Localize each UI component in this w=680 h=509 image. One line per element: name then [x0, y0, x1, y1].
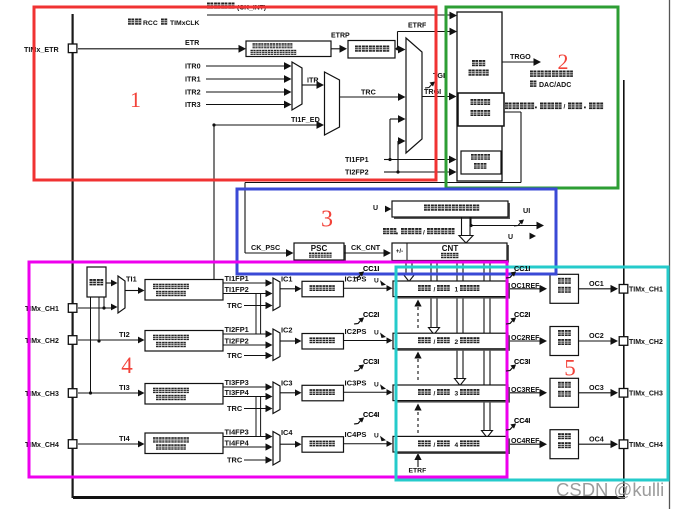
arrow ITR2 into ITR mux — [284, 88, 292, 96]
wire TI1FP1 to mux — [390, 118, 400, 120]
wire CK_PSC — [245, 252, 288, 254]
wire TI FP cross connection ch3-ch4 — [255, 397, 257, 437]
annotation box 1 red — [34, 7, 436, 180]
block prescaler ch4 — [302, 437, 344, 453]
wire slave mode controller feedback path — [504, 111, 521, 113]
arrow TI2FP1 into mux — [266, 330, 273, 337]
wire TI2FP2 to encoder — [398, 171, 452, 173]
svg-text:CC4I: CC4I — [514, 416, 530, 425]
arrow TI2FP2 into encoder interface — [449, 168, 457, 176]
wire TRGO — [502, 61, 535, 63]
svg-text:1: 1 — [130, 87, 141, 112]
wire ITR0 — [206, 65, 286, 67]
wire TI2FP1 — [223, 333, 266, 335]
wire OC3REF — [510, 392, 541, 394]
wire TRC ch3 — [244, 408, 266, 410]
wire TI1F_ED — [214, 124, 318, 126]
svg-text:TI2FP1: TI2FP1 — [225, 325, 249, 334]
svg-text:U: U — [373, 205, 378, 212]
wire TI FP cross connection ch1-ch2 — [255, 294, 257, 335]
arrow TI1FP2 into mux — [266, 290, 273, 297]
wire ETRF riser — [397, 32, 399, 49]
arrow TI2FP2 into trigger mux — [398, 137, 406, 145]
svg-text:TRGO: TRGO — [510, 52, 531, 61]
svg-text:ETRF: ETRF — [409, 468, 427, 475]
svg-text:U: U — [374, 433, 379, 440]
arrow TRC into mux ch2 — [266, 352, 273, 359]
svg-text:TI2FP2: TI2FP2 — [345, 168, 369, 177]
block polarity selection edge detector prescaler — [246, 41, 331, 57]
junction dot — [469, 224, 472, 227]
junction dot — [212, 123, 215, 126]
event arrow CC4I left — [354, 419, 362, 424]
svg-text:CC3I: CC3I — [514, 357, 530, 366]
svg-text:CSDN @kulli: CSDN @kulli — [556, 479, 664, 500]
arrow OC4 into pin — [611, 440, 619, 448]
svg-text:2: 2 — [455, 339, 459, 346]
svg-text:ITR0: ITR0 — [185, 62, 201, 71]
svg-text:TI4: TI4 — [119, 434, 131, 443]
svg-text:PSC: PSC — [311, 244, 328, 253]
arrow CK_PSC into PSC — [286, 249, 294, 257]
svg-text:TI2: TI2 — [119, 330, 130, 339]
mux TI1 input selection — [118, 276, 125, 313]
svg-text:5: 5 — [564, 356, 576, 381]
mux trigger selection (TRGI) — [406, 38, 422, 153]
svg-text:3: 3 — [455, 391, 459, 398]
svg-text:CC4I: CC4I — [363, 410, 379, 419]
wire TI1FP1 to encoder — [390, 159, 452, 161]
wire TI2FP2 — [384, 171, 398, 173]
arrow ITR into TRC mux — [317, 81, 325, 89]
arrow TRGI into slave mode controller — [449, 93, 457, 101]
register capture/compare 2 — [395, 335, 510, 351]
arrow into capture register 3 — [387, 389, 393, 395]
block input filter edge detector ch4 — [145, 433, 223, 454]
wire IC1 — [280, 288, 296, 290]
arrow OC1REF — [540, 285, 548, 293]
wire TI3 — [78, 392, 139, 394]
outer chip frame bottom edge — [73, 496, 625, 499]
wire OC4 — [579, 443, 613, 445]
svg-text:RCC: RCC — [143, 20, 158, 27]
mux IC1 input selection — [273, 278, 280, 311]
arrow TRC into mux ch4 — [266, 456, 273, 463]
svg-text:/: / — [423, 230, 425, 237]
svg-text:CK_PSC: CK_PSC — [251, 243, 280, 252]
wire XOR input from CH2 — [98, 297, 100, 340]
svg-text:ETR: ETR — [185, 38, 200, 47]
event mark U ch1 — [380, 280, 386, 286]
event arrow CC3I right — [506, 366, 514, 371]
wire IC4 — [280, 443, 296, 445]
block prescaler ch2 — [302, 334, 344, 350]
svg-text:IC1: IC1 — [281, 275, 293, 284]
label 停止、清零或递增/递减 — [383, 228, 396, 234]
svg-text:TIMx_ETR: TIMx_ETR — [24, 45, 60, 54]
svg-text:TI3FP4: TI3FP4 — [225, 388, 250, 397]
label 到DAC/ADC — [530, 81, 536, 87]
svg-text:2: 2 — [558, 49, 569, 74]
wire to prescaler clock path — [245, 182, 521, 184]
wire TI1FP1 — [384, 159, 390, 161]
svg-text:OC4: OC4 — [589, 434, 604, 443]
arrow TI1 into filter — [138, 287, 145, 294]
svg-text:TRC: TRC — [227, 351, 243, 360]
arrow U into ARR — [385, 206, 392, 213]
svg-text:OC1: OC1 — [589, 279, 604, 288]
svg-text:IC4PS: IC4PS — [345, 430, 367, 439]
arrow TRC into mux ch3 — [266, 405, 273, 412]
wire XOR input from CH3 — [90, 297, 92, 393]
junction dot — [102, 306, 105, 309]
wire ETRF to trigger controller — [398, 31, 453, 33]
svg-text:ETRF: ETRF — [408, 23, 427, 30]
wire TI1FP1 riser — [389, 119, 391, 160]
wire TRC ch1 — [244, 305, 266, 307]
arrow into capture register 1 — [387, 285, 393, 291]
wire TI3FP4 — [223, 396, 266, 398]
arrow TRGO — [534, 58, 542, 66]
arrow into capture register 2 — [387, 337, 393, 343]
svg-text:TRC: TRC — [227, 404, 243, 413]
svg-text:TI3FP3: TI3FP3 — [225, 378, 249, 387]
hollow arrow CNT to capture register at x=409 — [405, 261, 407, 275]
wire ETRF out of filter — [395, 48, 400, 50]
arrow CK_INT into trigger controller — [450, 12, 458, 20]
wire ETRF bottom — [417, 460, 419, 468]
wire TRGI — [422, 96, 451, 98]
svg-text:ITR2: ITR2 — [185, 88, 201, 97]
wire ETR — [78, 48, 241, 50]
svg-text:TIMx_CH3: TIMx_CH3 — [629, 391, 663, 398]
pin square TIMx_CH1 right — [619, 285, 628, 294]
wire OC4REF — [510, 443, 541, 445]
wire CK_PSC riser — [244, 183, 246, 254]
svg-text:CC3I: CC3I — [363, 357, 379, 366]
wire TI2 — [78, 339, 139, 341]
svg-text:TIMx_CH2: TIMx_CH2 — [629, 339, 663, 346]
wire TRC ch2 — [244, 355, 266, 357]
svg-text:ITR3: ITR3 — [185, 100, 201, 109]
register capture/compare 3 — [395, 387, 510, 403]
arrow TI4 into filter — [138, 441, 145, 448]
block input filter edge detector ch1 — [145, 280, 223, 301]
arrow TI3FP3 into mux — [266, 383, 273, 390]
svg-text:IC3: IC3 — [281, 379, 293, 388]
block input filter ETR — [348, 41, 395, 59]
event arrow CC1I right — [506, 273, 514, 278]
wire ITR3 — [206, 104, 286, 106]
arrow TI3 into filter — [138, 390, 145, 397]
pin square TIMx_CH1 left — [68, 304, 77, 313]
hollow arrow CNT to capture register at x=460 — [456, 261, 458, 379]
arrow OC3REF — [540, 389, 548, 397]
arrow IC1 into prescaler — [295, 285, 302, 292]
arrow TI3FP4 into mux — [266, 393, 273, 400]
wire TI2FP2 — [223, 344, 266, 346]
arrow TI2FP2 into mux — [266, 341, 273, 348]
mux IC3 input selection — [273, 382, 280, 414]
block prescaler ch3 — [302, 385, 344, 401]
svg-text:4: 4 — [455, 442, 459, 449]
block encoder interface — [461, 151, 501, 174]
pin square TIMx_ETR — [68, 44, 77, 53]
pin square TIMx_CH2 left — [68, 336, 77, 345]
arrow ETR into polarity box — [239, 45, 247, 53]
svg-text:/: / — [564, 104, 566, 111]
arrow ITR1 into ITR mux — [284, 75, 292, 83]
svg-text:TRGI: TRGI — [424, 87, 441, 96]
wire TI1 — [125, 290, 139, 292]
arrow ETRP into input filter — [340, 45, 348, 53]
wire TI4FP3 — [223, 436, 266, 438]
wire TRC ch4 — [244, 459, 266, 461]
svg-text:IC3PS: IC3PS — [345, 379, 367, 388]
pin square TIMx_CH3 left — [68, 389, 77, 398]
arrow TRC into trigger mux — [398, 93, 406, 101]
arrow OC2REF — [540, 337, 548, 345]
event arrow CC2I right — [506, 319, 514, 324]
event mark U ch4 — [380, 436, 386, 442]
arrow OC2 into pin — [611, 337, 619, 345]
arrow OC1 into pin — [611, 285, 619, 293]
svg-text:TI1F_ED: TI1F_ED — [291, 115, 320, 124]
svg-text:CK_CNT: CK_CNT — [351, 243, 381, 252]
arrow TI4FP3 into mux — [266, 433, 273, 440]
register auto-reload (ARR) — [394, 203, 510, 219]
arrow XOR out into TI1 mux — [111, 280, 118, 287]
register capture/compare 1 — [395, 283, 510, 299]
arrow up into capture register 1 — [414, 300, 421, 307]
wire TI4FP4 — [223, 446, 266, 448]
svg-text:ETRP: ETRP — [331, 33, 350, 40]
junction dot — [396, 47, 399, 50]
wire OC1REF — [510, 288, 541, 290]
arrow up into capture register 4 (ETRF) — [414, 453, 421, 460]
block slave mode controller — [458, 93, 504, 126]
block trigger controller — [457, 12, 502, 181]
page right border line — [669, 0, 671, 509]
arrow IC4 into prescaler — [295, 441, 302, 448]
svg-text:OC2: OC2 — [589, 331, 604, 340]
register CNT counter — [394, 245, 509, 263]
svg-text:TIMxCLK: TIMxCLK — [170, 20, 200, 27]
wire CK_INT internal clock line — [207, 14, 452, 16]
pin square TIMx_CH4 right — [619, 440, 628, 449]
svg-text:TIMx_CH4: TIMx_CH4 — [629, 442, 663, 449]
wire CK_CNT — [344, 252, 385, 254]
svg-text:3: 3 — [321, 207, 333, 233]
pin square TIMx_CH2 right — [619, 337, 628, 346]
pin square TIMx_CH4 left — [68, 440, 77, 449]
arrow CK_CNT into CNT — [384, 249, 392, 257]
svg-text:IC4: IC4 — [281, 428, 293, 437]
arrow TI1FP1 into trigger mux — [398, 115, 406, 123]
arrow IC3 into prescaler — [295, 389, 302, 396]
event arrow UI — [514, 221, 522, 226]
svg-text:/: / — [434, 391, 436, 398]
hollow arrow ARR to CNT — [461, 217, 463, 236]
svg-text:TI2FP2: TI2FP2 — [225, 337, 249, 346]
arrow OC4REF — [540, 440, 548, 448]
wire IC2 — [280, 340, 296, 342]
wire OC2REF — [510, 340, 541, 342]
arrow TI4FP4 into mux — [266, 443, 273, 450]
block XOR 异或 — [87, 267, 106, 297]
mux IC2 input selection — [273, 329, 280, 361]
arrow into capture register 4 — [387, 441, 393, 447]
event arrow CC3I left — [354, 366, 362, 371]
svg-text:OC4REF: OC4REF — [511, 438, 540, 445]
svg-text:TI1FP2: TI1FP2 — [225, 285, 249, 294]
label 复位、使能、递增/递减、计数 — [505, 103, 534, 110]
svg-text:IC1PS: IC1PS — [345, 275, 367, 284]
svg-text:TRC: TRC — [361, 88, 376, 97]
junction dot — [97, 339, 100, 342]
register PSC prescaler — [296, 245, 346, 262]
label 到其它定时器 — [530, 71, 573, 77]
mux TRC selection — [325, 72, 340, 135]
annotation box 5 cyan — [396, 267, 668, 480]
svg-text:U: U — [374, 381, 379, 388]
wire TI1FP1 — [223, 282, 266, 284]
wire TI1F_ED riser from CH1 filter — [213, 125, 215, 280]
annotation box 4 magenta — [29, 262, 507, 477]
block output control ch3 — [550, 378, 579, 407]
arrow TRC into mux ch1 — [266, 302, 273, 309]
pin square TIMx_CH3 right — [619, 389, 628, 398]
arrow up into capture register 2 — [414, 352, 421, 359]
svg-text:CC1I: CC1I — [514, 264, 530, 273]
label 来自RCC的TIMxCLK — [128, 19, 141, 25]
hollow arrow CNT to capture register at x=487 — [483, 261, 485, 431]
event arrow CC2I left — [354, 319, 362, 324]
register capture/compare 4 — [395, 438, 510, 454]
wire TI3FP3 — [223, 386, 266, 388]
svg-text:/: / — [434, 442, 436, 449]
junction dot — [396, 170, 399, 173]
svg-text:IC2: IC2 — [281, 326, 293, 335]
wire OC2 — [579, 340, 613, 342]
wire U event — [470, 217, 472, 226]
event arrow TGI — [425, 83, 433, 88]
junction dot — [89, 391, 92, 394]
svg-text:U: U — [508, 234, 513, 241]
svg-text:/: / — [434, 287, 436, 294]
arrow TI1F_ED into TRC mux — [317, 121, 325, 129]
svg-text:OC3REF: OC3REF — [511, 387, 540, 394]
mux IC4 input selection — [273, 432, 280, 466]
arrow up into capture register 3 — [414, 404, 421, 411]
svg-text:1: 1 — [455, 287, 459, 294]
svg-text:U: U — [374, 277, 379, 284]
wire TI1FP2 — [223, 293, 266, 295]
mux ITR selection — [292, 62, 302, 110]
svg-text:TI3: TI3 — [119, 383, 130, 392]
annotation box 2 green — [446, 7, 618, 188]
wire ITR2 — [206, 91, 286, 93]
svg-text:U: U — [374, 330, 379, 337]
svg-text:TI1FP1: TI1FP1 — [225, 274, 249, 283]
svg-text:TRC: TRC — [227, 456, 243, 465]
svg-text:ITR1: ITR1 — [185, 75, 201, 84]
block output control ch4 — [550, 430, 579, 459]
hollow arrow CNT to capture register at x=434 — [430, 261, 432, 328]
outer chip frame right edge — [623, 80, 625, 498]
arrow ETRF into trigger controller — [450, 28, 458, 36]
wire ETRP — [331, 48, 341, 50]
arrow TI1FP1 into mux — [266, 279, 273, 286]
svg-text:TI4FP4: TI4FP4 — [225, 439, 250, 448]
wire XOR output — [106, 282, 112, 284]
wire OC3 — [579, 392, 613, 394]
block output control ch1 — [550, 274, 579, 303]
svg-text:+/-: +/- — [396, 249, 403, 255]
wire IC3 — [280, 392, 296, 394]
wire ITR — [302, 84, 318, 86]
block prescaler ch1 — [302, 281, 344, 297]
wire TI2FP2 to mux — [398, 140, 400, 142]
label 内部时钟(CK_INT) — [207, 3, 235, 9]
arrow IC2 into prescaler — [295, 338, 302, 345]
arrow ETRF into trigger mux — [398, 46, 406, 54]
junction dot — [388, 158, 391, 161]
wire TI4 — [78, 443, 139, 445]
arrow OC3 into pin — [611, 389, 619, 397]
arrow U event right — [537, 222, 545, 230]
svg-text:/: / — [434, 339, 436, 346]
svg-text:TIMx_CH1: TIMx_CH1 — [629, 287, 663, 294]
arrow TI1FP1 into encoder interface — [449, 156, 457, 164]
svg-text:TI1FP1: TI1FP1 — [345, 155, 369, 164]
svg-text:TI4FP3: TI4FP3 — [225, 428, 249, 437]
arrow U event small — [530, 233, 537, 240]
arrow ITR0 into ITR mux — [284, 62, 292, 70]
arrow ITR3 into ITR mux — [284, 101, 292, 109]
arrow TI2 into filter — [138, 337, 145, 344]
svg-text:TI1: TI1 — [126, 275, 137, 284]
event arrow CC1I left — [354, 273, 362, 278]
wire ITR1 — [206, 78, 286, 80]
dashed capture event column — [417, 307, 419, 331]
wire TI2FP2 riser — [397, 141, 399, 172]
svg-text:OC1REF: OC1REF — [511, 283, 540, 290]
svg-text:CC2I: CC2I — [363, 310, 379, 319]
wire TRC — [340, 96, 400, 98]
svg-text:CNT: CNT — [442, 244, 459, 253]
event mark U ch3 — [380, 384, 386, 390]
wire XOR input from CH1 — [103, 297, 105, 308]
svg-text:TRC: TRC — [227, 301, 243, 310]
wire OC1 — [579, 288, 613, 290]
svg-text:OC2REF: OC2REF — [511, 335, 540, 342]
block input filter edge detector ch2 — [145, 331, 223, 352]
event arrow CC4I right — [506, 425, 514, 430]
block input filter edge detector ch3 — [145, 384, 223, 405]
svg-text:UI: UI — [523, 206, 530, 215]
block output control ch2 — [550, 327, 579, 356]
wire CH1 pin to mux — [78, 307, 112, 309]
arrow CH1 pin into TI1 mux — [111, 304, 118, 311]
outer chip frame left edge — [71, 14, 73, 498]
event mark U ch2 — [380, 333, 386, 339]
annotation box 3 blue — [237, 189, 556, 274]
svg-text:OC3: OC3 — [589, 383, 604, 392]
svg-text:CC1I: CC1I — [363, 264, 379, 273]
svg-text:DAC/ADC: DAC/ADC — [539, 82, 571, 89]
svg-text:4: 4 — [121, 353, 133, 378]
